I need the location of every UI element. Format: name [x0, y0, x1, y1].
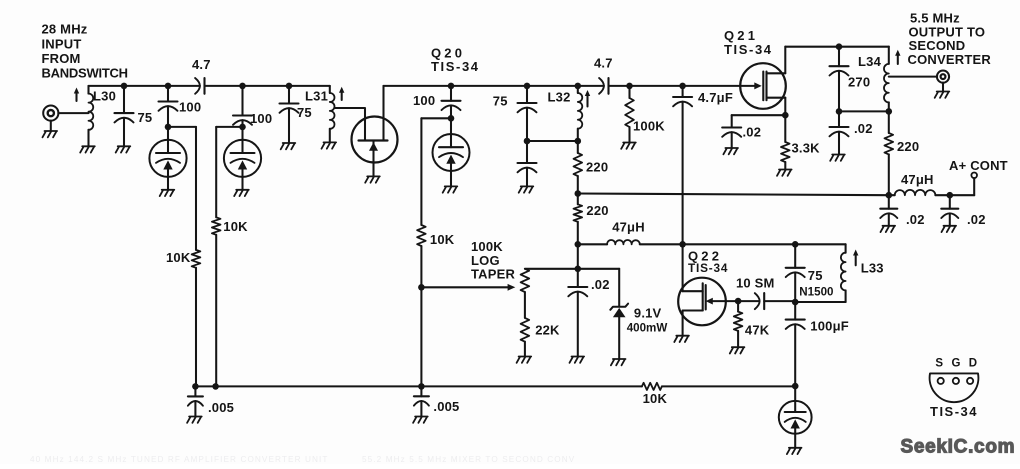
svg-text:S G D: S G D: [935, 358, 979, 370]
svg-text:TIS-34: TIS-34: [930, 404, 978, 419]
svg-text:100K: 100K: [633, 119, 665, 134]
svg-text:.02: .02: [906, 212, 925, 227]
svg-text:.005: .005: [433, 399, 459, 414]
svg-text:.02: .02: [967, 212, 986, 227]
svg-text:55.2 MHz 5.5 MHz MIXER TO SECO: 55.2 MHz 5.5 MHz MIXER TO SECOND CONV: [362, 455, 575, 464]
svg-text:10K: 10K: [166, 250, 191, 265]
svg-text:BANDSWITCH: BANDSWITCH: [42, 66, 128, 81]
svg-text:4.7: 4.7: [192, 57, 211, 72]
svg-text:10K: 10K: [643, 391, 668, 406]
svg-text:CONVERTER: CONVERTER: [908, 52, 992, 67]
svg-text:220: 220: [897, 139, 919, 154]
svg-text:9.1V: 9.1V: [634, 306, 662, 321]
svg-text:28 MHz: 28 MHz: [42, 22, 88, 37]
svg-text:100: 100: [413, 93, 435, 108]
svg-text:47K: 47K: [745, 323, 770, 338]
svg-text:Q21: Q21: [724, 28, 758, 43]
svg-text:10K: 10K: [430, 232, 455, 247]
svg-text:100K: 100K: [471, 239, 503, 254]
svg-text:220: 220: [586, 160, 608, 175]
svg-text:75: 75: [493, 93, 508, 108]
svg-text:22K: 22K: [535, 323, 560, 338]
svg-text:L33: L33: [861, 261, 884, 276]
svg-text:.02: .02: [854, 121, 873, 136]
svg-text:A+ CONT: A+ CONT: [949, 158, 1008, 173]
svg-text:75: 75: [138, 110, 153, 125]
svg-text:.02: .02: [591, 277, 610, 292]
svg-text:TAPER: TAPER: [471, 266, 516, 281]
svg-text:L31: L31: [305, 89, 328, 104]
svg-text:SeekIC.com: SeekIC.com: [901, 437, 1016, 458]
svg-text:FROM: FROM: [42, 51, 81, 66]
svg-text:TIS-34: TIS-34: [431, 59, 480, 74]
svg-text:220: 220: [586, 203, 608, 218]
svg-text:4.7μF: 4.7μF: [698, 90, 733, 105]
svg-text:47μH: 47μH: [901, 172, 934, 187]
svg-text:TIS-34: TIS-34: [724, 42, 773, 57]
svg-text:100μF: 100μF: [810, 319, 849, 334]
svg-text:270: 270: [848, 75, 870, 90]
svg-text:47μH: 47μH: [612, 220, 645, 235]
svg-text:INPUT: INPUT: [42, 37, 82, 52]
svg-text:.02: .02: [743, 125, 762, 140]
svg-text:10 SM: 10 SM: [736, 276, 775, 291]
svg-text:L34: L34: [858, 54, 882, 69]
svg-text:L30: L30: [93, 89, 116, 104]
svg-text:100: 100: [179, 100, 201, 115]
svg-text:SECOND: SECOND: [909, 38, 966, 53]
svg-text:40 MHz 144.2 S MHz TUNED RF AM: 40 MHz 144.2 S MHz TUNED RF AMPLIFIER CO…: [30, 455, 328, 464]
svg-text:5.5 MHz: 5.5 MHz: [910, 11, 960, 26]
svg-text:75: 75: [297, 105, 312, 120]
svg-text:N1500: N1500: [799, 286, 833, 299]
svg-text:75: 75: [808, 268, 823, 283]
svg-text:10K: 10K: [223, 219, 248, 234]
svg-text:3.3K: 3.3K: [792, 141, 821, 156]
svg-text:400mW: 400mW: [627, 322, 668, 335]
svg-text:100: 100: [250, 111, 272, 126]
svg-text:.005: .005: [208, 400, 234, 415]
svg-text:TIS-34: TIS-34: [688, 261, 728, 275]
svg-text:L32: L32: [548, 90, 571, 105]
svg-text:4.7: 4.7: [594, 56, 613, 71]
